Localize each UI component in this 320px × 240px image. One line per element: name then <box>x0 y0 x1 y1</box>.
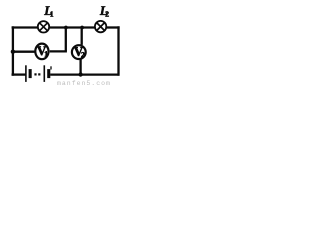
wire left rail <box>12 26 14 75</box>
wire V2 top vertical lead <box>81 27 83 45</box>
battery cell 1 long plate <box>25 65 27 82</box>
battery ellipsis dot 2 <box>38 73 40 75</box>
node B junction dot on top wire at V2 lead <box>80 26 84 30</box>
wire top-middle segment between L1 and L2 <box>49 26 95 28</box>
lamp L1 <box>38 21 49 32</box>
artifact blob above battery cell 2 plate <box>50 66 51 69</box>
wire V1 left lead <box>13 51 36 53</box>
node junction dot on bottom wire at V2 lead <box>78 72 82 76</box>
wire mid vertical from node A down to V1 right lead <box>65 26 67 51</box>
wire right rail <box>117 26 119 75</box>
battery ellipsis dot 1 <box>34 73 36 75</box>
voltmeter V1 <box>35 44 48 60</box>
node A junction dot on top wire at mid vertical <box>64 26 68 30</box>
label L1 <box>44 6 53 16</box>
wire top-right segment <box>106 26 120 28</box>
label L2 <box>100 6 109 16</box>
node junction dot on left rail at V1 lead <box>11 50 15 54</box>
wire V2 bottom vertical lead <box>79 59 81 75</box>
wire bottom-left segment <box>12 73 27 75</box>
svg-text:manfen5.com: manfen5.com <box>57 80 111 87</box>
battery cell 2 long plate <box>43 65 45 82</box>
battery cell 1 short thick plate <box>29 69 32 78</box>
battery cell 2 short thick plate <box>47 69 50 78</box>
wire bottom-right segment <box>50 73 119 75</box>
wire V1 right lead <box>50 50 67 52</box>
voltmeter V2 <box>72 45 86 59</box>
lamp L2 <box>95 21 106 32</box>
wire top-left segment <box>12 26 39 28</box>
